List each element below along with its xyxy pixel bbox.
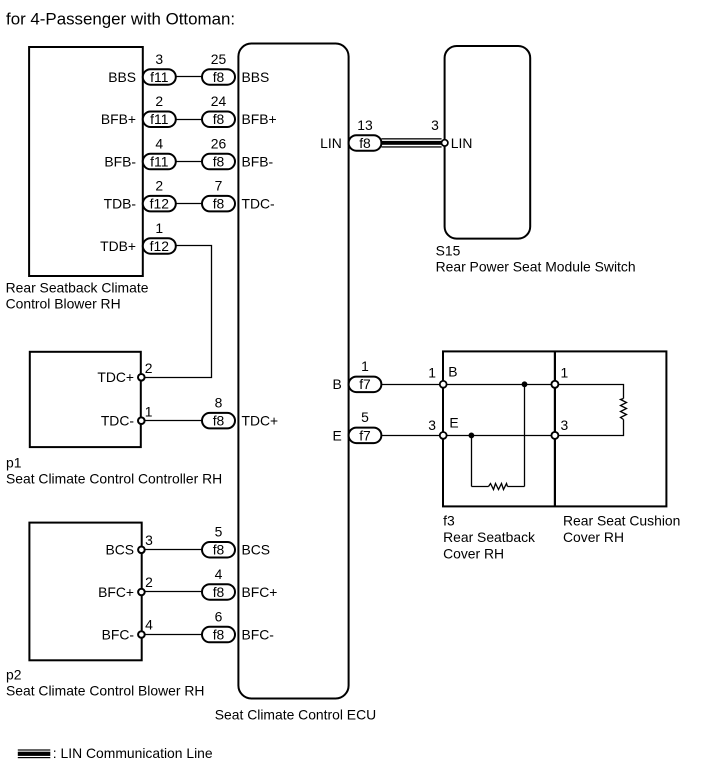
- svg-text:TDB-: TDB-: [104, 196, 137, 212]
- svg-text:BFB-: BFB-: [242, 153, 274, 169]
- svg-text:BBS: BBS: [242, 69, 270, 85]
- svg-text:TDB+: TDB+: [100, 238, 136, 254]
- svg-text:3: 3: [145, 532, 153, 548]
- svg-text:5: 5: [215, 524, 223, 540]
- svg-text:3: 3: [155, 51, 163, 67]
- svg-text:f12: f12: [150, 238, 170, 254]
- svg-text:f3: f3: [443, 512, 455, 528]
- svg-text:S15: S15: [436, 243, 461, 259]
- svg-text:f8: f8: [213, 111, 225, 127]
- svg-text:BFB+: BFB+: [242, 111, 277, 127]
- svg-text:Control Blower RH: Control Blower RH: [6, 295, 121, 311]
- svg-text:Rear Seatback Climate: Rear Seatback Climate: [6, 280, 149, 296]
- svg-text:E: E: [449, 415, 458, 431]
- svg-text:BFC-: BFC-: [242, 626, 275, 642]
- svg-text:LIN: LIN: [320, 135, 342, 151]
- svg-text:BCS: BCS: [105, 542, 134, 558]
- svg-text:Rear Seat Cushion: Rear Seat Cushion: [563, 512, 680, 528]
- svg-text:2: 2: [145, 574, 153, 590]
- svg-text:f8: f8: [359, 135, 371, 151]
- svg-text:1: 1: [361, 358, 369, 374]
- svg-text:Cover RH: Cover RH: [563, 529, 624, 545]
- svg-text:f8: f8: [213, 69, 225, 85]
- svg-text:4: 4: [155, 135, 163, 151]
- svg-text:BFB+: BFB+: [101, 111, 136, 127]
- svg-text:f7: f7: [359, 427, 371, 443]
- svg-text:BFC+: BFC+: [98, 584, 134, 600]
- svg-text:f8: f8: [213, 584, 225, 600]
- svg-text:13: 13: [357, 117, 373, 133]
- svg-text:1: 1: [145, 403, 153, 419]
- svg-text:5: 5: [361, 409, 369, 425]
- svg-text:25: 25: [211, 51, 227, 67]
- svg-text:3: 3: [431, 117, 439, 133]
- svg-text:7: 7: [215, 178, 223, 194]
- svg-text:Rear Seatback: Rear Seatback: [443, 529, 535, 545]
- svg-text:f11: f11: [150, 153, 169, 169]
- svg-text:TDC+: TDC+: [242, 413, 279, 429]
- svg-text:BFC+: BFC+: [242, 584, 278, 600]
- svg-text:f8: f8: [213, 626, 225, 642]
- svg-text:6: 6: [215, 608, 223, 624]
- svg-text:E: E: [333, 427, 342, 443]
- svg-text:f8: f8: [213, 542, 225, 558]
- svg-text:LIN: LIN: [451, 135, 473, 151]
- svg-text:p1: p1: [6, 455, 22, 471]
- svg-text:TDC+: TDC+: [97, 369, 134, 385]
- svg-text:24: 24: [211, 93, 227, 109]
- svg-text:Cover RH: Cover RH: [443, 545, 504, 561]
- svg-text:26: 26: [211, 135, 227, 151]
- svg-text:8: 8: [215, 395, 223, 411]
- svg-text:3: 3: [428, 417, 436, 433]
- svg-text:f7: f7: [359, 376, 371, 392]
- svg-text:4: 4: [215, 566, 223, 582]
- svg-text:: LIN Communication Line: : LIN Communication Line: [53, 745, 213, 761]
- svg-text:TDC-: TDC-: [101, 413, 135, 429]
- svg-text:f8: f8: [213, 153, 225, 169]
- svg-text:BCS: BCS: [242, 542, 271, 558]
- svg-text:1: 1: [561, 365, 569, 381]
- svg-text:f8: f8: [213, 413, 225, 429]
- svg-text:2: 2: [155, 178, 163, 194]
- svg-text:for 4-Passenger with Ottoman:: for 4-Passenger with Ottoman:: [6, 10, 235, 29]
- svg-text:BFB-: BFB-: [104, 153, 136, 169]
- svg-text:B: B: [448, 364, 457, 380]
- svg-text:1: 1: [155, 220, 163, 236]
- svg-text:BFC-: BFC-: [102, 626, 135, 642]
- svg-text:BBS: BBS: [108, 69, 136, 85]
- svg-text:1: 1: [428, 365, 436, 381]
- svg-text:f11: f11: [150, 69, 169, 85]
- svg-text:3: 3: [561, 417, 569, 433]
- svg-text:TDC-: TDC-: [242, 196, 276, 212]
- svg-text:Seat Climate Control Controlle: Seat Climate Control Controller RH: [6, 470, 222, 486]
- svg-text:f8: f8: [213, 196, 225, 212]
- svg-text:B: B: [333, 376, 342, 392]
- svg-text:Rear Power Seat Module Switch: Rear Power Seat Module Switch: [436, 258, 636, 274]
- svg-text:Seat Climate Control Blower RH: Seat Climate Control Blower RH: [6, 682, 204, 698]
- svg-text:p2: p2: [6, 666, 22, 682]
- svg-text:4: 4: [145, 617, 153, 633]
- svg-text:Seat Climate Control ECU: Seat Climate Control ECU: [215, 707, 376, 723]
- svg-text:f12: f12: [150, 196, 170, 212]
- svg-text:2: 2: [155, 93, 163, 109]
- svg-text:f11: f11: [150, 111, 169, 127]
- svg-text:2: 2: [145, 360, 153, 376]
